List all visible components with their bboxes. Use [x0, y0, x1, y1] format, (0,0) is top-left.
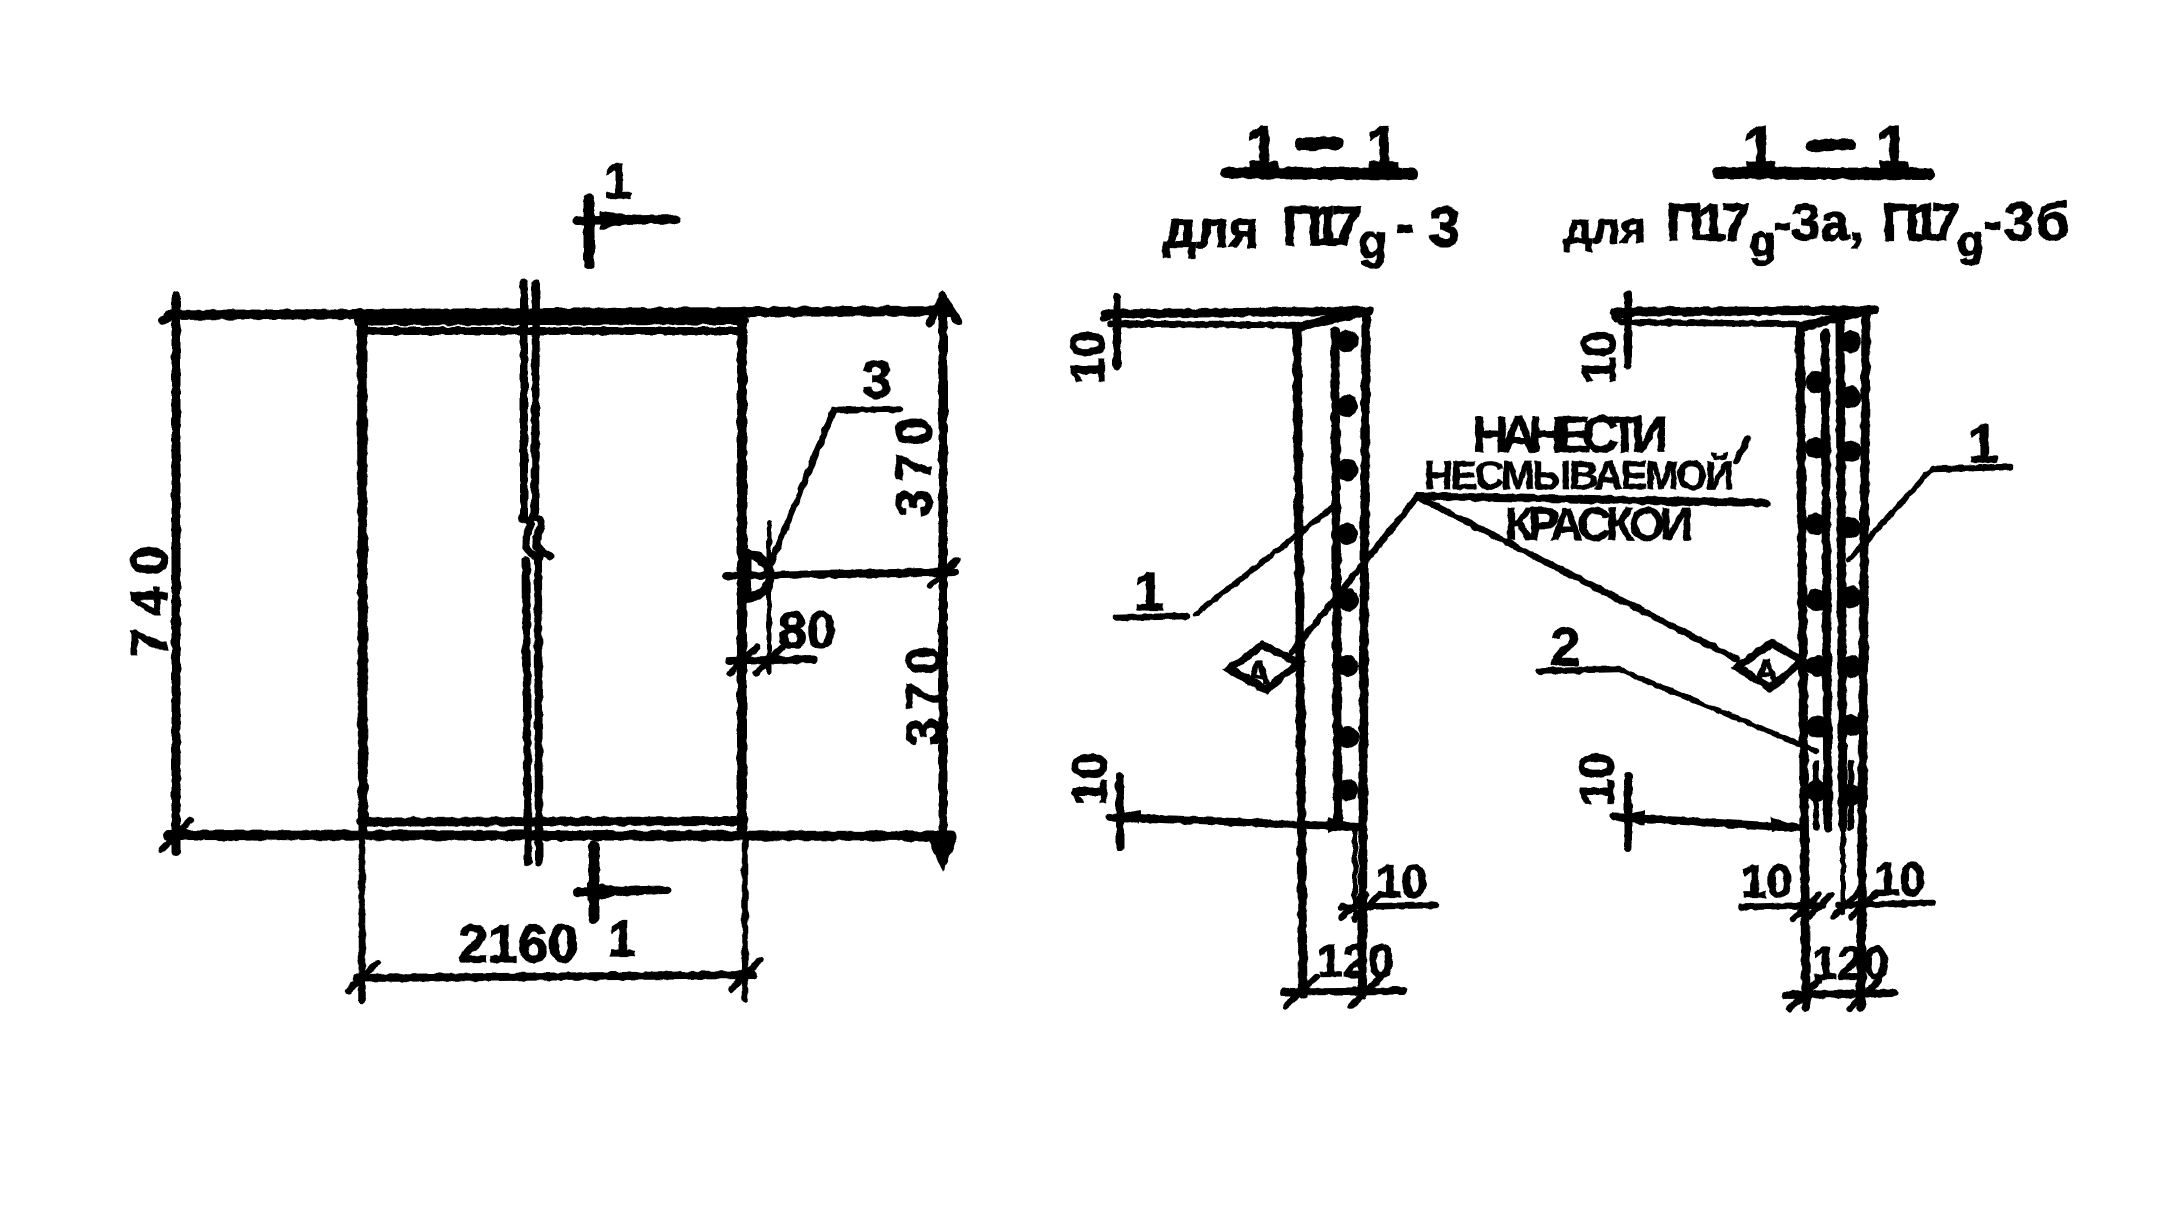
svg-text:-: - [1396, 195, 1414, 255]
svg-text:3: 3 [862, 350, 892, 410]
svg-text:80: 80 [778, 602, 836, 660]
svg-text:для: для [1564, 204, 1646, 253]
svg-text:370: 370 [896, 639, 952, 746]
svg-text:-3б: -3б [1984, 192, 2071, 252]
svg-text:для: для [1163, 201, 1259, 259]
svg-text:740: 740 [121, 534, 179, 657]
svg-text:А: А [1755, 653, 1778, 689]
svg-text:-3а,: -3а, [1774, 194, 1864, 252]
svg-text:1: 1 [608, 911, 636, 967]
svg-text:1: 1 [604, 153, 632, 209]
svg-text:10: 10 [1573, 331, 1626, 384]
svg-text:10: 10 [1062, 331, 1115, 384]
svg-text:1: 1 [1134, 562, 1164, 622]
svg-text:2160: 2160 [458, 914, 578, 974]
svg-text:10: 10 [1376, 855, 1427, 907]
svg-text:g: g [1749, 217, 1776, 266]
svg-text:10: 10 [1874, 853, 1925, 905]
svg-text:А: А [1247, 655, 1270, 691]
svg-text:10: 10 [1571, 753, 1624, 806]
svg-text:НЕСМЫВАЕМОЙ: НЕСМЫВАЕМОЙ [1424, 452, 1734, 498]
svg-text:370: 370 [886, 410, 942, 517]
svg-text:П17: П17 [1282, 194, 1362, 257]
svg-text:g: g [1957, 217, 1984, 266]
svg-text:3: 3 [1429, 195, 1460, 258]
svg-text:120: 120 [1317, 935, 1394, 987]
svg-text:g: g [1358, 216, 1387, 269]
svg-text:10: 10 [1741, 855, 1792, 907]
svg-text:П17: П17 [1882, 194, 1960, 252]
svg-text:10: 10 [1064, 753, 1117, 806]
svg-text:П17: П17 [1666, 194, 1750, 252]
svg-text:КРАСКОЙ: КРАСКОЙ [1505, 498, 1693, 550]
svg-text:120: 120 [1812, 937, 1889, 989]
